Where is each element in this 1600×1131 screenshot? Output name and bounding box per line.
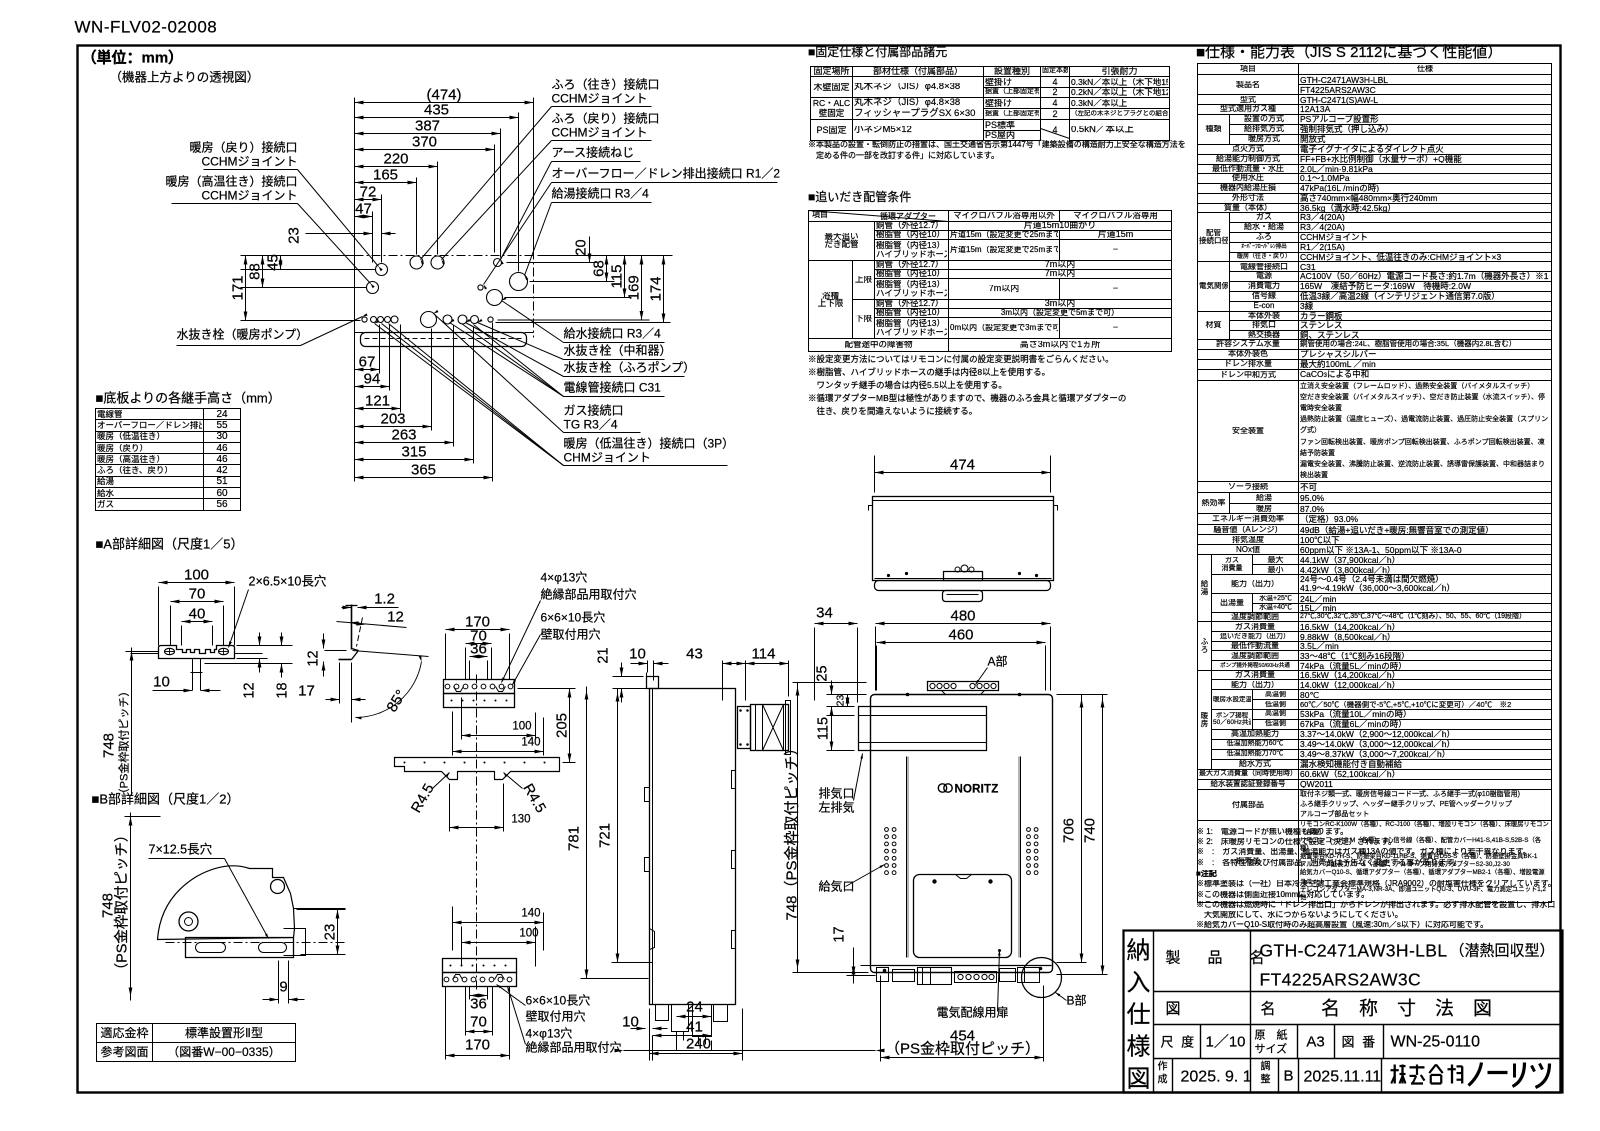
svg-text:68: 68 [591, 260, 608, 277]
svg-text:170: 170 [465, 1037, 490, 1054]
svg-text:387: 387 [415, 118, 440, 135]
svg-text:781: 781 [566, 826, 583, 851]
svg-text:40: 40 [189, 606, 206, 623]
svg-text:47: 47 [355, 201, 372, 218]
svg-text:サイズ: サイズ [1255, 1042, 1288, 1056]
svg-text:1／10: 1／10 [1206, 1034, 1246, 1051]
svg-text:CHMジョイント: CHMジョイント [564, 451, 651, 465]
svg-text:原 紙: 原 紙 [1255, 1028, 1288, 1042]
svg-text:FT4225ARS2AW3C: FT4225ARS2AW3C [1260, 970, 1422, 990]
svg-text:165: 165 [373, 167, 398, 184]
svg-text:ふろ（往き）接続口: ふろ（往き）接続口 [552, 77, 660, 92]
svg-text:17: 17 [298, 683, 315, 700]
svg-text:壁取付用穴: 壁取付用穴 [541, 627, 601, 642]
svg-text:アース接続ねじ: アース接続ねじ [552, 145, 635, 160]
svg-text:ガス接続口: ガス接続口 [564, 403, 624, 418]
svg-text:TG R3／4: TG R3／4 [564, 418, 618, 432]
svg-text:72: 72 [360, 184, 377, 201]
svg-text:706: 706 [1061, 818, 1078, 843]
svg-text:暖房（低温往き）接続口（3P）: 暖房（低温往き）接続口（3P） [564, 436, 735, 451]
svg-text:左排気: 左排気 [819, 800, 855, 815]
svg-text:CCHMジョイント: CCHMジョイント [552, 92, 648, 106]
svg-text:WN-FLV02-02008: WN-FLV02-02008 [75, 18, 218, 37]
svg-text:ふろ（戻り）接続口: ふろ（戻り）接続口 [552, 111, 660, 126]
svg-text:115: 115 [609, 265, 626, 289]
svg-text:（PS金枠取付ピッチ）: （PS金枠取付ピッチ） [885, 1041, 1040, 1058]
svg-text:1.2: 1.2 [374, 591, 395, 608]
svg-text:67: 67 [359, 354, 376, 371]
svg-text:2025.11.11: 2025.11.11 [1304, 1069, 1382, 1086]
svg-text:納: 納 [1127, 938, 1151, 965]
svg-text:12: 12 [242, 682, 258, 698]
svg-text:暖房（高温往き）接続口: 暖房（高温往き）接続口 [165, 174, 297, 189]
svg-text:水抜き栓（中和器）: 水抜き栓（中和器） [564, 343, 672, 358]
svg-text:水抜き栓（暖房ポンプ）: 水抜き栓（暖房ポンプ） [177, 327, 309, 342]
svg-text:様: 様 [1127, 1034, 1151, 1061]
svg-text:460: 460 [948, 627, 973, 644]
svg-text:尺 度: 尺 度 [1161, 1035, 1197, 1050]
svg-text:18: 18 [275, 682, 291, 698]
svg-text:130: 130 [511, 814, 530, 826]
svg-text:721: 721 [597, 823, 614, 848]
svg-text:■底板よりの各継手高さ（mm）: ■底板よりの各継手高さ（mm） [96, 391, 281, 406]
svg-text:100: 100 [512, 721, 531, 733]
svg-text:94: 94 [364, 371, 381, 388]
svg-text:220: 220 [383, 151, 408, 168]
svg-text:45: 45 [265, 254, 282, 271]
svg-text:（PS金枠取付ピッチ）: （PS金枠取付ピッチ） [117, 686, 131, 800]
svg-text:25: 25 [815, 665, 831, 681]
svg-text:（単位：mm）: （単位：mm） [82, 49, 184, 67]
svg-text:121: 121 [365, 393, 390, 410]
svg-text:7×12.5長穴: 7×12.5長穴 [149, 842, 213, 857]
svg-text:仕: 仕 [1127, 1002, 1151, 1029]
svg-text:205: 205 [554, 713, 571, 738]
svg-text:CCHMジョイント: CCHMジョイント [202, 189, 298, 203]
svg-text:748（PS金枠取付ピッチ）: 748（PS金枠取付ピッチ） [784, 740, 801, 920]
svg-text:140: 140 [521, 737, 540, 749]
svg-text:R4.5: R4.5 [408, 781, 437, 816]
svg-text:（PS金枠取付ピッチ）: （PS金枠取付ピッチ） [114, 828, 131, 978]
svg-text:図 名: 図 名 [1166, 1001, 1280, 1018]
svg-text:B: B [1283, 1068, 1293, 1085]
svg-text:174: 174 [648, 276, 665, 301]
svg-text:調: 調 [1261, 1060, 1271, 1073]
svg-text:NORITZ: NORITZ [955, 784, 999, 796]
svg-text:85°: 85° [383, 687, 409, 715]
svg-text:水抜き栓（ふろポンプ）: 水抜き栓（ふろポンプ） [564, 360, 696, 375]
svg-text:CCHMジョイント: CCHMジョイント [202, 155, 298, 169]
svg-text:作: 作 [1158, 1061, 1168, 1073]
svg-text:20: 20 [574, 239, 590, 255]
svg-text:23: 23 [835, 695, 847, 707]
svg-text:10: 10 [622, 1014, 639, 1031]
svg-text:図: 図 [1127, 1066, 1151, 1093]
svg-text:4×φ13穴: 4×φ13穴 [541, 570, 588, 585]
svg-text:■B部詳細図（尺度1／2）: ■B部詳細図（尺度1／2） [92, 792, 240, 807]
svg-text:12: 12 [306, 650, 322, 666]
svg-text:740: 740 [1082, 818, 1099, 843]
svg-text:給湯接続口 R3／4: 給湯接続口 R3／4 [552, 186, 650, 201]
svg-text:2×6.5×10長穴: 2×6.5×10長穴 [249, 574, 327, 589]
svg-text:9: 9 [279, 979, 287, 996]
svg-text:GTH-C2471AW3H-LBL: GTH-C2471AW3H-LBL [1260, 941, 1448, 961]
svg-text:A部: A部 [988, 654, 1008, 669]
svg-text:140: 140 [521, 908, 540, 920]
svg-text:43: 43 [686, 646, 703, 663]
svg-text:100: 100 [184, 567, 209, 584]
svg-text:36: 36 [470, 641, 487, 658]
svg-text:オーバーフロー／ドレン排出接続口 R1／2: オーバーフロー／ドレン排出接続口 R1／2 [552, 166, 781, 181]
svg-text:絶縁部品用取付穴: 絶縁部品用取付穴 [541, 587, 637, 602]
svg-text:排気口: 排気口 [819, 786, 855, 801]
svg-text:名 称 寸 法 図: 名 称 寸 法 図 [1321, 998, 1492, 1020]
svg-text:図 番: 図 番 [1342, 1035, 1378, 1050]
svg-text:34: 34 [816, 605, 833, 622]
svg-text:WN-25-0110: WN-25-0110 [1391, 1034, 1481, 1051]
svg-text:169: 169 [626, 275, 643, 300]
svg-text:壁取付用穴: 壁取付用穴 [526, 1009, 586, 1024]
svg-text:263: 263 [391, 427, 416, 444]
svg-text:315: 315 [401, 444, 426, 461]
svg-text:製 品 名: 製 品 名 [1166, 950, 1271, 967]
svg-text:入: 入 [1127, 970, 1151, 997]
svg-text:10: 10 [629, 646, 646, 663]
svg-text:748: 748 [101, 733, 118, 758]
svg-text:R4.5: R4.5 [519, 781, 548, 816]
svg-text:171: 171 [230, 275, 247, 300]
svg-text:給水接続口 R3／4: 給水接続口 R3／4 [564, 326, 662, 341]
svg-text:21: 21 [596, 647, 612, 663]
svg-text:暖房（戻り）接続口: 暖房（戻り）接続口 [189, 140, 297, 155]
svg-text:4×φ13穴: 4×φ13穴 [526, 1026, 573, 1041]
svg-text:17: 17 [832, 926, 848, 942]
svg-text:41: 41 [686, 1019, 703, 1036]
svg-text:474: 474 [950, 457, 975, 474]
svg-text:70: 70 [470, 1014, 487, 1031]
svg-text:23: 23 [322, 924, 339, 941]
svg-text:203: 203 [380, 411, 405, 428]
svg-text:114: 114 [752, 646, 776, 663]
svg-text:成: 成 [1158, 1074, 1168, 1086]
svg-text:70: 70 [189, 586, 206, 603]
svg-text:88: 88 [247, 263, 264, 280]
svg-text:23: 23 [286, 227, 303, 244]
svg-text:整: 整 [1261, 1073, 1271, 1086]
svg-text:24: 24 [686, 999, 703, 1016]
svg-text:給気口: 給気口 [819, 879, 855, 894]
svg-text:6×6×10長穴: 6×6×10長穴 [541, 610, 606, 625]
svg-text:■A部詳細図（尺度1／5）: ■A部詳細図（尺度1／5） [96, 537, 244, 552]
svg-text:B部: B部 [1067, 993, 1087, 1008]
svg-text:A3: A3 [1306, 1034, 1324, 1051]
svg-text:12: 12 [387, 609, 404, 626]
svg-text:365: 365 [411, 462, 436, 479]
svg-text:（機器上方よりの透視図）: （機器上方よりの透視図） [110, 70, 260, 85]
svg-text:2025. 9. 1: 2025. 9. 1 [1181, 1069, 1252, 1086]
svg-text:6×6×10長穴: 6×6×10長穴 [526, 993, 591, 1008]
svg-text:電線管接続口 C31: 電線管接続口 C31 [564, 380, 662, 395]
svg-text:240: 240 [686, 1036, 711, 1053]
svg-text:（潜熱回収型）: （潜熱回収型） [1450, 943, 1555, 960]
svg-text:435: 435 [424, 102, 449, 119]
svg-text:36: 36 [470, 996, 487, 1013]
svg-text:絶縁部品用取付穴: 絶縁部品用取付穴 [526, 1040, 622, 1055]
svg-text:370: 370 [412, 134, 437, 151]
svg-text:CCHMジョイント: CCHMジョイント [552, 126, 648, 140]
svg-text:10: 10 [153, 674, 170, 691]
svg-text:480: 480 [950, 608, 975, 625]
svg-text:100: 100 [519, 928, 538, 940]
svg-text:115: 115 [816, 717, 832, 740]
